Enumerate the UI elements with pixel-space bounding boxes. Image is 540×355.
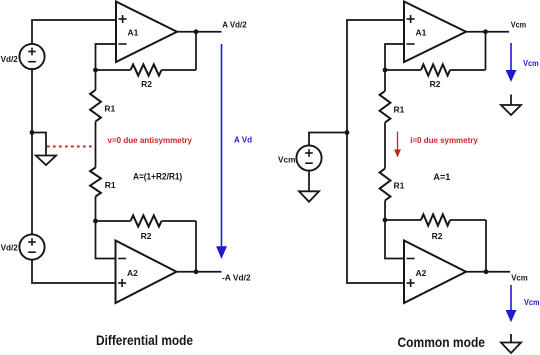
wire R2 right side down to output right xyxy=(485,220,487,272)
op-amp A1 left xyxy=(116,2,177,63)
svg-text:Vcm: Vcm xyxy=(511,272,528,282)
label Vd/2 bottom xyxy=(1,243,18,253)
svg-text:R1: R1 xyxy=(105,180,116,190)
label v=0 due antisymmetry xyxy=(108,135,193,145)
junction A2 right output xyxy=(484,269,489,274)
wire mid rail upper right xyxy=(384,70,386,91)
wire A2 right output xyxy=(466,271,510,273)
wire to ground left xyxy=(32,133,46,156)
svg-text:A Vd/2: A Vd/2 xyxy=(222,20,247,30)
label A=1 xyxy=(433,172,450,182)
wire Vcm source to ground xyxy=(308,171,310,192)
label R1 upper left xyxy=(104,104,115,114)
wire feedback to A2 right inverting input xyxy=(385,220,404,259)
resistor R1 lower right xyxy=(380,169,391,201)
wire R2 right side down to output left xyxy=(195,221,197,272)
svg-text:Vcm: Vcm xyxy=(524,297,540,307)
svg-text:Common mode: Common mode xyxy=(398,335,486,351)
svg-text:Vcm: Vcm xyxy=(511,20,527,30)
label R1 lower left xyxy=(105,180,116,190)
wire R2 feedback run A2 xyxy=(96,220,197,222)
wire mid rail center left xyxy=(95,122,97,168)
dotted line v=0 xyxy=(47,146,94,148)
blue arrow Vcm top xyxy=(506,43,517,82)
label Vcm source xyxy=(278,155,296,165)
svg-text:Vd/2: Vd/2 xyxy=(1,54,18,64)
svg-text:Vcm: Vcm xyxy=(278,155,296,165)
wire output down to feedback left xyxy=(195,32,197,70)
label R1 lower right xyxy=(394,181,405,191)
ground under Vcm source xyxy=(299,191,319,202)
label R2 bottom left xyxy=(141,231,152,241)
label -A Vd/2 xyxy=(222,273,251,283)
svg-text:A Vd: A Vd xyxy=(234,134,252,144)
svg-text:R2: R2 xyxy=(141,231,152,241)
svg-text:A2: A2 xyxy=(127,268,138,278)
svg-text:Vcm: Vcm xyxy=(523,58,539,68)
wire A2 output xyxy=(177,271,222,273)
svg-text:R2: R2 xyxy=(141,79,152,89)
voltage source Vd/2 top xyxy=(19,44,44,69)
red arrow i=0 xyxy=(394,132,401,158)
junction Vcm rail xyxy=(345,130,350,135)
label R2 right bottom xyxy=(432,231,443,241)
wire noninverting rail right xyxy=(347,20,404,283)
svg-text:A=(1+R2/R1): A=(1+R2/R1) xyxy=(133,171,182,181)
blue arrow Vcm bottom xyxy=(506,285,517,322)
svg-text:A=1: A=1 xyxy=(433,172,450,182)
label A=(1+R2/R1) xyxy=(133,171,182,181)
junction feedback A1 right xyxy=(383,68,388,73)
label i=0 due symmetry xyxy=(410,135,478,145)
wire R2 feedback run A1 right xyxy=(385,69,486,71)
wire R2 feedback run A2 right xyxy=(385,219,486,221)
svg-text:i=0 due symmetry: i=0 due symmetry xyxy=(410,135,478,145)
label Vd/2 top xyxy=(1,54,18,64)
wire output down to feedback right xyxy=(485,32,487,70)
label A Vd/2 xyxy=(222,20,247,30)
wire left rail source to source xyxy=(31,69,33,235)
junction A1 output xyxy=(194,29,199,34)
wire mid rail lower left xyxy=(95,197,97,222)
wire A1 output xyxy=(177,31,222,33)
svg-text:A1: A1 xyxy=(128,27,139,37)
wire A1 right inverting input xyxy=(385,44,404,70)
resistor R2 feedback A2 right xyxy=(421,214,450,225)
title Common mode xyxy=(398,335,486,351)
wire mid rail center right xyxy=(384,123,386,169)
voltage source Vcm xyxy=(296,145,321,170)
label Vcm output bottom xyxy=(511,272,528,282)
svg-text:A2: A2 xyxy=(416,268,427,278)
svg-text:R2: R2 xyxy=(432,231,443,241)
op-amp A2 right xyxy=(404,241,466,304)
svg-text:R2: R2 xyxy=(430,79,441,89)
wire R2 feedback run A1 xyxy=(96,69,197,71)
svg-text:v=0 due antisymmetry: v=0 due antisymmetry xyxy=(108,135,193,145)
svg-text:-A Vd/2: -A Vd/2 xyxy=(222,273,251,283)
junction left rail ground tap xyxy=(30,130,35,135)
label R2 top left xyxy=(141,79,152,89)
resistor R2 feedback A1 right xyxy=(421,64,450,75)
label Vcm output top xyxy=(511,20,527,30)
op-amp A1 right xyxy=(404,2,466,63)
blue arrow A Vd xyxy=(216,44,227,259)
resistor R1 upper right xyxy=(380,91,391,123)
ground left xyxy=(36,156,56,166)
junction A1 right output xyxy=(483,29,488,34)
wire source bottom to A2 plus input xyxy=(32,260,116,283)
wire A1 right output xyxy=(466,31,509,33)
resistor R1 upper left xyxy=(90,90,101,122)
wire feedback to A2 inverting input xyxy=(96,221,116,259)
wire mid rail upper left xyxy=(95,70,97,90)
resistor R2 feedback A1 xyxy=(131,64,162,75)
junction A2 output xyxy=(194,269,199,274)
title Differential mode xyxy=(96,333,193,349)
label R2 right top xyxy=(430,79,441,89)
svg-text:Vd/2: Vd/2 xyxy=(1,243,18,253)
wire Vcm source top to rail xyxy=(309,133,347,146)
label Vcm blue top xyxy=(523,58,539,68)
ground bottom right xyxy=(501,334,521,353)
junction node feedback A1 xyxy=(93,68,98,73)
label A Vd xyxy=(234,134,252,144)
svg-text:A1: A1 xyxy=(416,27,427,37)
junction feedback A2 right xyxy=(383,218,388,223)
resistor R2 feedback A2 xyxy=(131,215,162,226)
op-amp A2 left xyxy=(116,241,177,304)
svg-text:R1: R1 xyxy=(104,104,115,114)
label Vcm blue bottom xyxy=(524,297,540,307)
wire mid rail lower right xyxy=(384,201,386,221)
junction node feedback A2 xyxy=(93,219,98,224)
ground below top blue arrow xyxy=(501,95,521,116)
svg-text:R1: R1 xyxy=(394,105,405,115)
voltage source Vd/2 bottom xyxy=(19,234,44,259)
svg-text:Differential mode: Differential mode xyxy=(96,333,193,349)
resistor R1 lower left xyxy=(90,168,101,197)
svg-text:R1: R1 xyxy=(394,181,405,191)
wire A1 inverting input xyxy=(96,44,117,70)
label R1 upper right xyxy=(394,105,405,115)
wire source top to A1 plus input xyxy=(32,20,116,44)
